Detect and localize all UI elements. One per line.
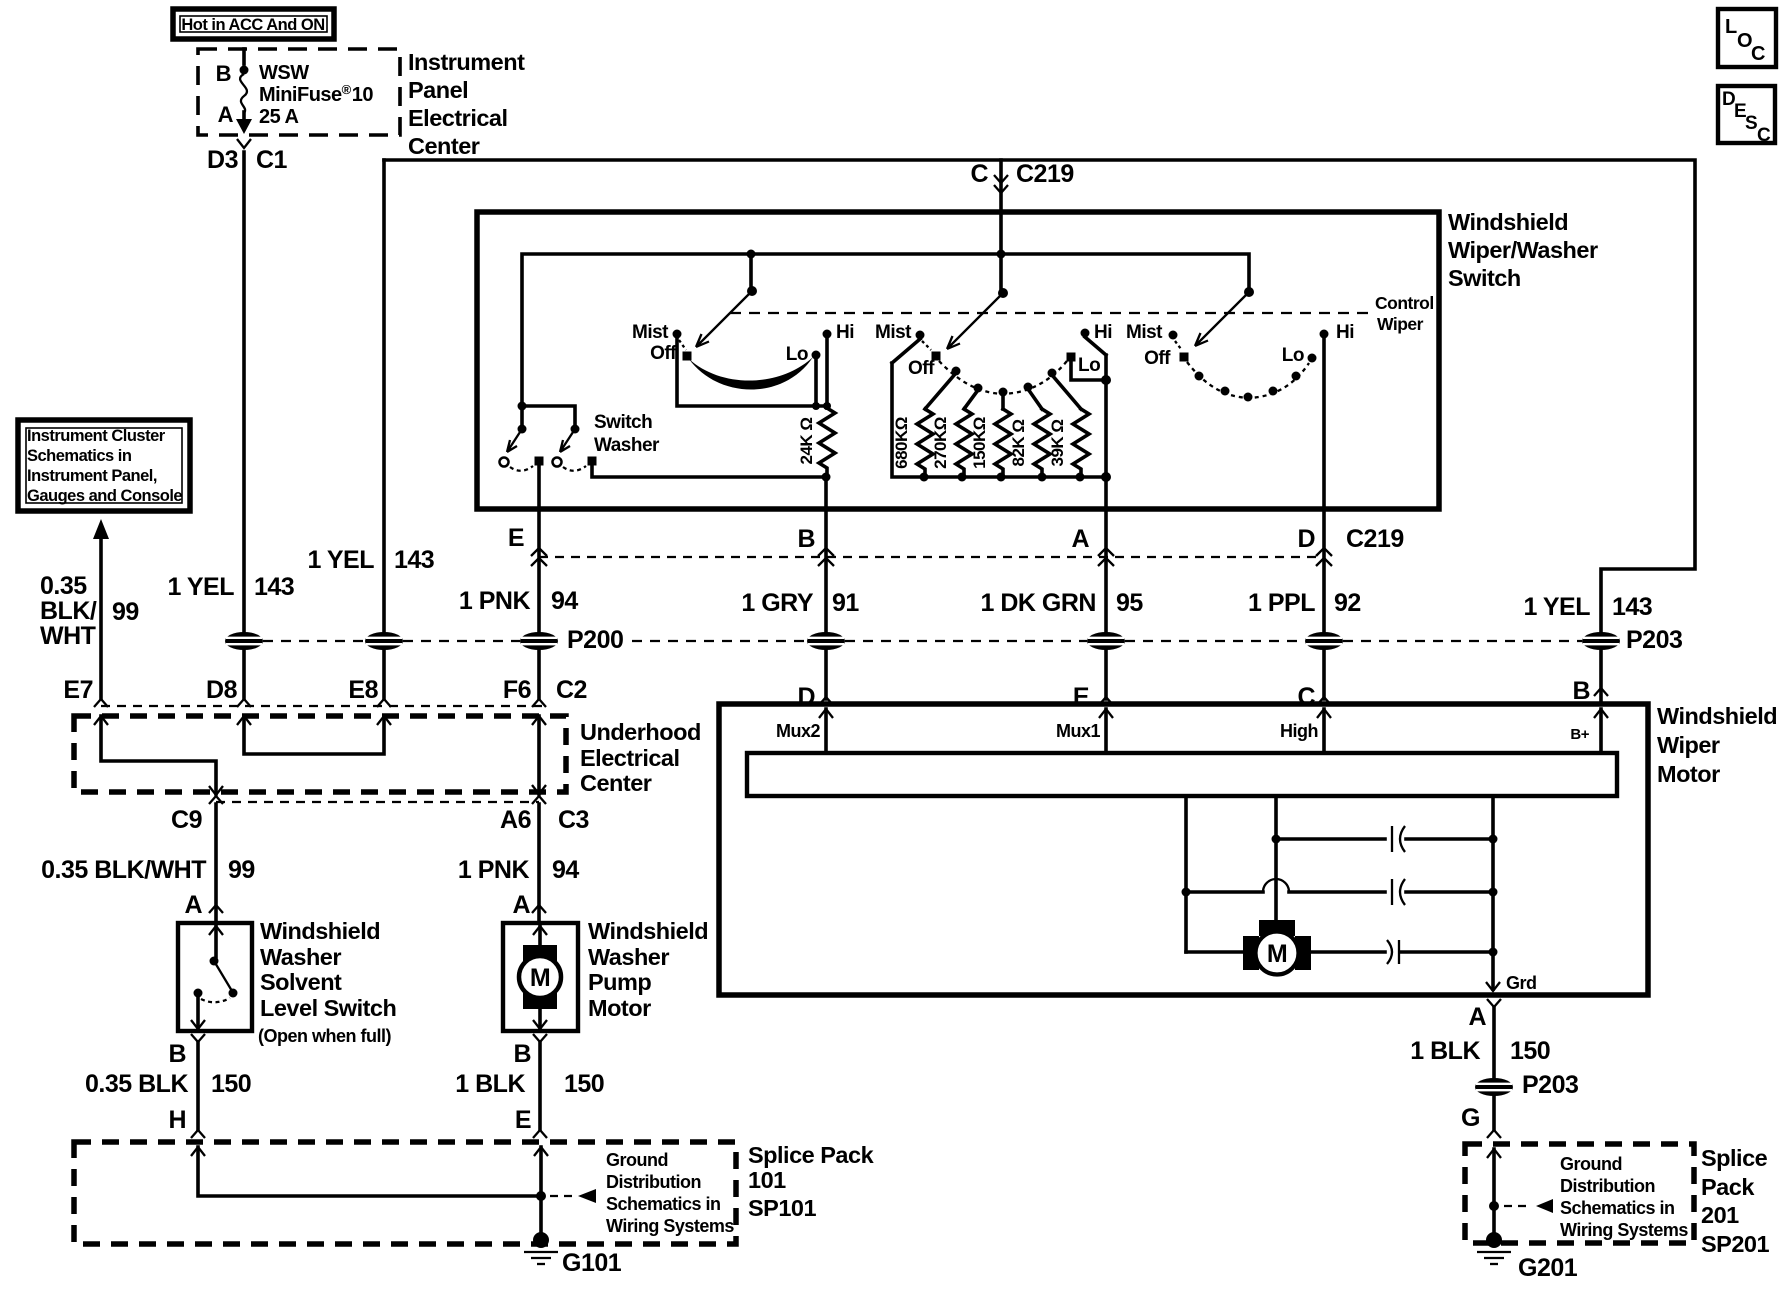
svg-text:E7: E7 bbox=[63, 676, 93, 704]
svg-text:Motor: Motor bbox=[1657, 761, 1720, 787]
svg-text:SP101: SP101 bbox=[748, 1195, 816, 1221]
svg-text:94: 94 bbox=[551, 587, 578, 615]
svg-text:Windshield: Windshield bbox=[260, 918, 380, 944]
svg-text:Splice: Splice bbox=[1701, 1145, 1768, 1171]
svg-text:1 GRY: 1 GRY bbox=[741, 589, 813, 617]
svg-text:Center: Center bbox=[580, 770, 652, 796]
svg-text:B+: B+ bbox=[1570, 726, 1589, 743]
svg-text:Schematics in: Schematics in bbox=[27, 447, 132, 465]
svg-text:BLK/: BLK/ bbox=[40, 597, 97, 625]
svg-text:Wiper: Wiper bbox=[1377, 314, 1424, 334]
svg-text:Mux2: Mux2 bbox=[776, 721, 821, 741]
svg-text:P200: P200 bbox=[567, 626, 623, 654]
svg-text:0.35 BLK: 0.35 BLK bbox=[85, 1070, 188, 1098]
svg-text:C: C bbox=[1757, 125, 1771, 146]
svg-text:680KΩ: 680KΩ bbox=[892, 417, 911, 469]
svg-text:A: A bbox=[218, 102, 234, 127]
svg-text:S: S bbox=[1745, 113, 1757, 134]
svg-text:Motor: Motor bbox=[588, 995, 651, 1021]
svg-text:25 A: 25 A bbox=[259, 106, 299, 128]
svg-text:A: A bbox=[512, 891, 530, 919]
svg-text:1 PPL: 1 PPL bbox=[1248, 589, 1315, 617]
svg-text:Mux1: Mux1 bbox=[1056, 721, 1101, 741]
svg-text:Grd: Grd bbox=[1506, 973, 1537, 993]
svg-text:B: B bbox=[1572, 677, 1590, 705]
svg-text:99: 99 bbox=[228, 856, 255, 884]
svg-text:C219: C219 bbox=[1016, 160, 1074, 188]
svg-text:(Open when full): (Open when full) bbox=[258, 1026, 391, 1046]
svg-text:1 YEL: 1 YEL bbox=[167, 573, 234, 601]
svg-text:E8: E8 bbox=[348, 676, 378, 704]
svg-text:1 YEL: 1 YEL bbox=[1523, 593, 1590, 621]
svg-text:A: A bbox=[184, 891, 202, 919]
svg-text:150KΩ: 150KΩ bbox=[970, 417, 989, 469]
svg-text:H: H bbox=[168, 1106, 186, 1134]
svg-text:39K Ω: 39K Ω bbox=[1048, 419, 1067, 466]
svg-text:201: 201 bbox=[1701, 1202, 1739, 1228]
svg-text:D: D bbox=[797, 683, 815, 711]
svg-text:Solvent: Solvent bbox=[260, 969, 342, 995]
svg-text:High: High bbox=[1280, 721, 1318, 741]
svg-text:99: 99 bbox=[112, 598, 139, 626]
svg-text:C219: C219 bbox=[1346, 525, 1404, 553]
svg-text:92: 92 bbox=[1334, 589, 1361, 617]
svg-text:101: 101 bbox=[748, 1167, 786, 1193]
svg-text:Pack: Pack bbox=[1701, 1174, 1755, 1200]
svg-text:Distribution: Distribution bbox=[1560, 1176, 1655, 1196]
svg-text:Hot in ACC And ON: Hot in ACC And ON bbox=[181, 16, 324, 34]
svg-text:C: C bbox=[1751, 43, 1765, 65]
svg-text:Mist: Mist bbox=[632, 322, 669, 343]
svg-text:1 BLK: 1 BLK bbox=[455, 1070, 525, 1098]
svg-text:1 PNK: 1 PNK bbox=[459, 587, 531, 615]
svg-text:1 PNK: 1 PNK bbox=[458, 856, 530, 884]
svg-text:C9: C9 bbox=[171, 806, 202, 834]
svg-text:G101: G101 bbox=[562, 1249, 622, 1277]
svg-text:143: 143 bbox=[254, 573, 294, 601]
svg-text:C2: C2 bbox=[556, 676, 587, 704]
svg-text:D3: D3 bbox=[207, 146, 238, 174]
svg-text:Panel: Panel bbox=[408, 77, 468, 103]
svg-text:Level Switch: Level Switch bbox=[260, 995, 396, 1021]
svg-text:Control: Control bbox=[1375, 293, 1434, 313]
svg-text:0.35 BLK/WHT: 0.35 BLK/WHT bbox=[41, 856, 206, 884]
svg-text:O: O bbox=[1737, 30, 1752, 52]
svg-text:A: A bbox=[1468, 1003, 1486, 1031]
svg-text:Lo: Lo bbox=[786, 344, 808, 365]
svg-text:B: B bbox=[168, 1040, 186, 1068]
svg-text:Pump: Pump bbox=[588, 969, 651, 995]
svg-text:Splice Pack: Splice Pack bbox=[748, 1142, 875, 1168]
svg-text:C: C bbox=[1297, 683, 1315, 711]
svg-text:Mist: Mist bbox=[1126, 322, 1163, 343]
svg-text:Underhood: Underhood bbox=[580, 719, 701, 745]
svg-text:P203: P203 bbox=[1626, 626, 1682, 654]
svg-text:Distribution: Distribution bbox=[606, 1172, 701, 1192]
svg-text:91: 91 bbox=[832, 589, 859, 617]
svg-text:Ground: Ground bbox=[1560, 1154, 1622, 1174]
svg-text:D: D bbox=[1297, 525, 1315, 553]
svg-text:B: B bbox=[513, 1040, 531, 1068]
svg-text:Mist: Mist bbox=[875, 322, 912, 343]
svg-text:A: A bbox=[1071, 525, 1089, 553]
svg-text:F6: F6 bbox=[503, 676, 531, 704]
svg-text:95: 95 bbox=[1116, 589, 1143, 617]
svg-text:Electrical: Electrical bbox=[408, 105, 508, 131]
svg-text:Off: Off bbox=[908, 358, 935, 379]
svg-text:P203: P203 bbox=[1522, 1071, 1578, 1099]
svg-text:M: M bbox=[530, 964, 550, 992]
svg-text:Washer: Washer bbox=[588, 944, 669, 970]
svg-text:C3: C3 bbox=[558, 806, 589, 834]
svg-text:Lo: Lo bbox=[1282, 345, 1304, 366]
svg-text:Switch: Switch bbox=[594, 412, 652, 433]
svg-text:Off: Off bbox=[650, 343, 677, 364]
svg-text:WSW: WSW bbox=[259, 62, 309, 84]
svg-text:Hi: Hi bbox=[836, 322, 854, 343]
svg-text:Gauges and Console: Gauges and Console bbox=[27, 487, 182, 505]
svg-text:1 YEL: 1 YEL bbox=[307, 546, 374, 574]
svg-text:1 DK GRN: 1 DK GRN bbox=[981, 589, 1096, 617]
svg-text:Washer: Washer bbox=[260, 944, 341, 970]
svg-text:82K Ω: 82K Ω bbox=[1009, 419, 1028, 466]
svg-text:Windshield: Windshield bbox=[1657, 703, 1777, 729]
svg-text:Instrument: Instrument bbox=[408, 49, 525, 75]
svg-text:143: 143 bbox=[394, 546, 434, 574]
svg-text:150: 150 bbox=[1510, 1037, 1550, 1065]
svg-text:143: 143 bbox=[1612, 593, 1652, 621]
svg-text:Washer: Washer bbox=[594, 435, 660, 456]
svg-text:B: B bbox=[216, 61, 231, 86]
svg-text:Windshield: Windshield bbox=[588, 918, 708, 944]
svg-text:24K Ω: 24K Ω bbox=[797, 417, 816, 464]
svg-text:Electrical: Electrical bbox=[580, 745, 680, 771]
svg-text:Wiper/Washer: Wiper/Washer bbox=[1448, 237, 1598, 263]
svg-text:C: C bbox=[970, 160, 988, 188]
svg-text:E: E bbox=[1073, 683, 1089, 711]
svg-text:E: E bbox=[508, 524, 524, 552]
svg-text:Wiring Systems: Wiring Systems bbox=[606, 1216, 734, 1236]
svg-text:150: 150 bbox=[211, 1070, 251, 1098]
svg-text:Lo: Lo bbox=[1078, 355, 1100, 376]
svg-text:M: M bbox=[1267, 940, 1287, 968]
svg-text:Switch: Switch bbox=[1448, 265, 1521, 291]
svg-text:D8: D8 bbox=[206, 676, 238, 704]
svg-text:270KΩ: 270KΩ bbox=[931, 417, 950, 469]
svg-text:0.35: 0.35 bbox=[40, 572, 87, 600]
svg-text:94: 94 bbox=[552, 856, 579, 884]
svg-text:C1: C1 bbox=[256, 146, 288, 174]
svg-text:Wiper: Wiper bbox=[1657, 732, 1720, 758]
svg-text:MiniFuse®10: MiniFuse®10 bbox=[259, 82, 373, 106]
svg-text:Ground: Ground bbox=[606, 1150, 668, 1170]
svg-text:E: E bbox=[515, 1106, 531, 1134]
svg-text:Schematics in: Schematics in bbox=[1560, 1198, 1675, 1218]
svg-text:L: L bbox=[1725, 16, 1737, 38]
svg-text:150: 150 bbox=[564, 1070, 604, 1098]
svg-text:G: G bbox=[1461, 1104, 1480, 1132]
svg-text:B: B bbox=[797, 525, 815, 553]
svg-text:Hi: Hi bbox=[1094, 322, 1112, 343]
svg-text:G201: G201 bbox=[1518, 1254, 1578, 1282]
svg-text:Instrument Cluster: Instrument Cluster bbox=[27, 427, 166, 445]
svg-text:A6: A6 bbox=[500, 806, 531, 834]
svg-text:Center: Center bbox=[408, 133, 480, 159]
svg-text:Instrument Panel,: Instrument Panel, bbox=[27, 467, 157, 485]
svg-text:Hi: Hi bbox=[1336, 322, 1354, 343]
svg-text:Off: Off bbox=[1144, 348, 1171, 369]
svg-text:Wiring Systems: Wiring Systems bbox=[1560, 1220, 1688, 1240]
svg-text:SP201: SP201 bbox=[1701, 1231, 1769, 1257]
svg-text:Windshield: Windshield bbox=[1448, 209, 1568, 235]
svg-text:WHT: WHT bbox=[40, 622, 96, 650]
svg-text:1 BLK: 1 BLK bbox=[1410, 1037, 1480, 1065]
svg-text:Schematics in: Schematics in bbox=[606, 1194, 721, 1214]
